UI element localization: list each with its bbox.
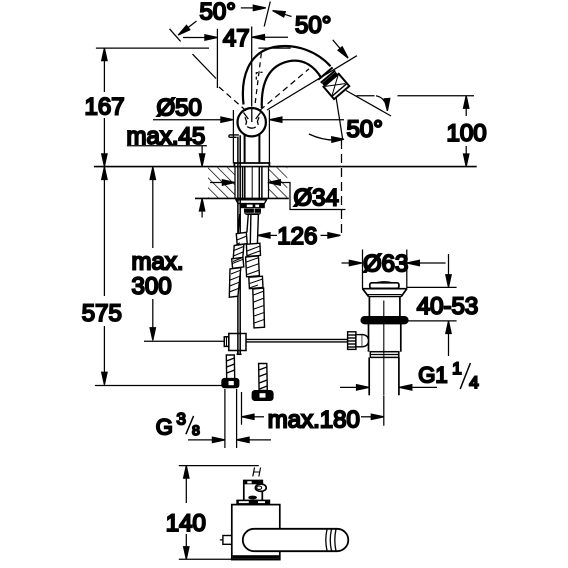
deck top line [94, 166, 477, 168]
svg-text:max.180: max.180 [268, 406, 360, 433]
left hose collar 2 [232, 257, 244, 268]
svg-text:3: 3 [177, 410, 186, 429]
dimension 575 [102, 167, 107, 180]
dimension G1 1/4 [340, 386, 357, 388]
angle dim 50deg #1 left arrow and tick [170, 29, 181, 42]
right hose collar 1 [246, 243, 260, 256]
upper body [368, 297, 370, 317]
hose hatch marks [229, 236, 264, 323]
spout tube outer edge [243, 46, 331, 104]
left hose tube [238, 214, 240, 233]
dimension 167 vertical line [103, 48, 105, 92]
fraction slashes [186, 363, 471, 434]
svg-text:4: 4 [469, 373, 478, 392]
top reference line over tube apex [258, 47, 290, 49]
svg-text:47: 47 [223, 25, 250, 52]
right hose braided segment 1 [246, 256, 260, 277]
dimension 100 [357, 95, 375, 97]
right hose end fitting [252, 364, 273, 401]
spout axis line A [267, 56, 357, 110]
svg-text:300: 300 [132, 273, 172, 300]
svg-text:167: 167 [85, 93, 125, 120]
47 extension line left [216, 29, 218, 88]
angle dim 50deg #2 arrow to spout axis [333, 40, 341, 49]
right hose tube [249, 214, 252, 244]
dimension 140 [179, 465, 259, 467]
pull rod linkage clamp [224, 334, 348, 355]
pop-up waste assembly [348, 282, 408, 396]
faucet centerline over tube [251, 27, 253, 107]
svg-text:Ø34: Ø34 [294, 185, 339, 212]
dimension max.300 [150, 167, 155, 180]
svg-text:100: 100 [447, 120, 487, 147]
dimension G3/8 [188, 439, 212, 441]
top fitting [244, 481, 262, 501]
spout tube white fill [243, 46, 331, 108]
svg-text:8: 8 [192, 422, 200, 438]
svg-text:G: G [156, 415, 173, 440]
supply hoses [229, 214, 264, 328]
svg-text:40-53: 40-53 [417, 293, 478, 320]
faucet body below ball [244, 134, 246, 163]
dimension D50 [153, 119, 221, 121]
50deg #2 arc arrow at right [376, 96, 387, 108]
dimension 126 [258, 233, 271, 238]
ball knob [238, 108, 266, 136]
threaded shank [243, 167, 262, 200]
lower body [368, 324, 370, 352]
svg-text:Ø50: Ø50 [157, 94, 202, 121]
50deg #3 arc arrow [309, 134, 342, 140]
lever neutral hidden dashed [255, 52, 261, 103]
tailpipe [368, 357, 370, 395]
spout tube inner edge [262, 61, 322, 108]
hose end reference line [95, 385, 223, 387]
right hose braided segment 2 [253, 288, 265, 328]
dimension D63 [342, 262, 350, 264]
svg-text:max.: max. [132, 249, 184, 276]
svg-text:1: 1 [452, 359, 461, 378]
deck hatching [208, 167, 235, 198]
trap body [232, 505, 280, 560]
svg-text:G1: G1 [418, 363, 447, 388]
lever swung-left line (partly dashed) [193, 54, 217, 78]
dimension 47 [183, 37, 205, 39]
dimension max.45 [127, 145, 207, 147]
svg-text:50°: 50° [295, 12, 331, 39]
flange top [363, 288, 407, 290]
right hose collar 2 [249, 276, 263, 288]
side knob [348, 332, 369, 350]
deck hole edges [234, 167, 236, 198]
svg-text:Ø63: Ø63 [363, 250, 408, 277]
dimension 40-53 [407, 286, 457, 288]
deck bottom line [195, 197, 289, 199]
dimension max.180 [242, 414, 255, 419]
left hose braided segment 2 [229, 268, 241, 298]
left hose collar 1 [236, 232, 247, 245]
washer and mounting nut [236, 200, 267, 215]
base flange [234, 163, 269, 167]
aerator end cap assembly [318, 67, 349, 99]
svg-text:50°: 50° [347, 116, 383, 143]
angle dim 50deg #1 right arrow and lever tick [241, 7, 254, 9]
svg-text:140: 140 [166, 510, 206, 537]
left hose end fitting [222, 355, 239, 388]
flange bar [236, 500, 270, 505]
svg-text:50°: 50° [200, 0, 236, 25]
top reference line y=48 [96, 47, 209, 49]
svg-text:H: H [252, 464, 262, 479]
outlet pipe [243, 529, 348, 551]
water outlet line [335, 89, 343, 140]
svg-text:575: 575 [82, 300, 122, 327]
bottom trap drawing [220, 464, 348, 559]
left hose braided segment 1 [233, 244, 244, 264]
lever swung-right line dashed [260, 69, 309, 110]
side nipple [223, 536, 232, 545]
O-ring [361, 317, 408, 324]
horizontal linkage rod [246, 338, 349, 340]
dimension D34 leader [210, 182, 223, 184]
svg-text:126: 126 [277, 223, 317, 250]
plug cap [370, 283, 399, 289]
ball interior marks [244, 107, 261, 128]
end face extension line B [346, 91, 391, 117]
pop-up pull rod [229, 135, 240, 354]
svg-text:max.45: max.45 [127, 123, 206, 150]
bottom ring [370, 352, 399, 358]
